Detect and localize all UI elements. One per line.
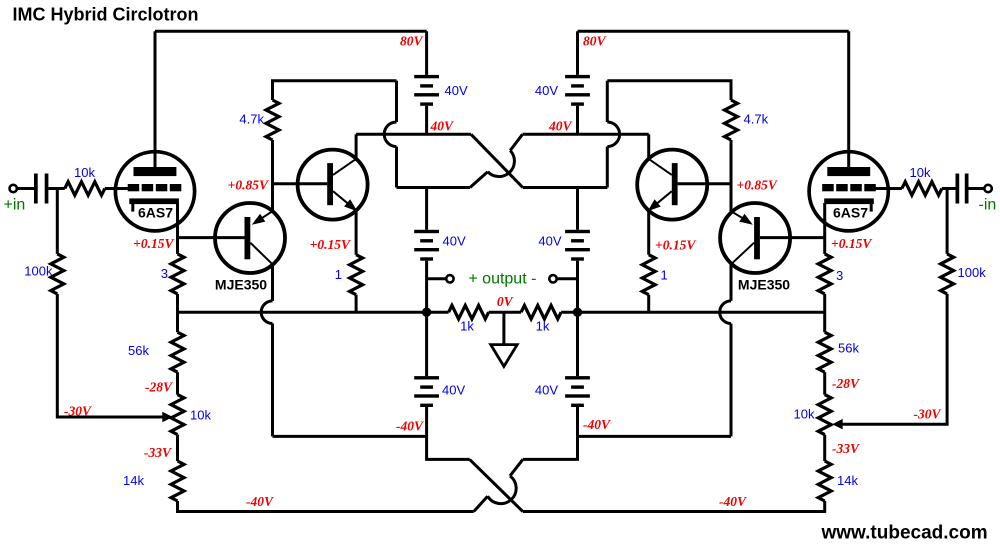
Q1 base bar bbox=[245, 217, 251, 259]
resistor R 100k (left) bbox=[51, 254, 64, 294]
resistor R 3 (left cathode) bbox=[171, 254, 184, 294]
svg-text:-40V: -40V bbox=[583, 417, 611, 432]
wire 10k to C2 bbox=[942, 187, 956, 190]
transistor Q1 MJE350 (left) circle bbox=[215, 203, 285, 273]
wire Q3 base to 4.7k node bbox=[678, 182, 731, 185]
wire pot to 14k (right) bbox=[823, 435, 826, 461]
svg-text:40V: 40V bbox=[445, 83, 468, 98]
node -in terminal bbox=[984, 185, 991, 192]
resistor R 1 (right) bbox=[642, 255, 655, 295]
resistor R 100k (right) bbox=[941, 254, 954, 294]
wire output tap right bbox=[557, 277, 578, 280]
wire B2 to junction bbox=[425, 261, 428, 313]
wire 10k to tube grid bbox=[105, 187, 129, 190]
resistor R 4.7k (right) bbox=[725, 100, 738, 140]
svg-text:40V: 40V bbox=[538, 234, 561, 249]
svg-text:+ output -: + output - bbox=[468, 270, 536, 287]
tube V2 cathode bbox=[824, 198, 874, 204]
wire lower edge left bbox=[397, 186, 471, 189]
svg-text:-28V: -28V bbox=[145, 380, 173, 395]
wire top rail right bbox=[578, 30, 849, 33]
wire node to R 100k bbox=[56, 189, 59, 254]
wire 14k to bottom rail (right) bbox=[523, 501, 825, 512]
tube V2 cathode legs bbox=[870, 203, 873, 212]
svg-text:4.7k: 4.7k bbox=[744, 112, 769, 127]
resistor R 1k (right) bbox=[521, 305, 561, 319]
wire 4.7k top to drop column right bbox=[607, 81, 731, 100]
wire mid rail left bbox=[178, 311, 427, 314]
wire 100k to -30V bend bbox=[57, 294, 163, 417]
wire left column into bottom crossing bbox=[427, 436, 470, 459]
svg-text:10k: 10k bbox=[190, 408, 211, 423]
svg-text:40V: 40V bbox=[430, 118, 455, 133]
wiper arrow into pot 10k left bbox=[162, 412, 173, 422]
wire pot to 14k bbox=[176, 435, 179, 461]
tube V1 grid (dashed) bbox=[128, 184, 140, 191]
svg-text:+0.15V: +0.15V bbox=[133, 236, 174, 251]
node junction dot left bbox=[422, 308, 431, 317]
transistor Q4 MJE350 (right) circle bbox=[720, 203, 790, 273]
wire 4.7k to +0.85V node bbox=[271, 140, 274, 211]
wire junction to battery B3 bbox=[425, 312, 428, 376]
wire 0V node to ground bbox=[502, 312, 505, 344]
resistor R 10k (right grid stopper) bbox=[902, 182, 942, 196]
svg-text:6AS7: 6AS7 bbox=[833, 205, 868, 221]
svg-text:80V: 80V bbox=[583, 33, 607, 48]
node +in terminal bbox=[10, 185, 17, 192]
wire bottom cross diagonal (left to right) bbox=[470, 459, 523, 511]
wire tube grid to 10k (right) bbox=[876, 187, 902, 190]
wire 4.7k to +0.85V node bbox=[730, 140, 733, 211]
wire 4.7k top to drop column bbox=[273, 81, 397, 100]
svg-text:40V: 40V bbox=[535, 383, 558, 398]
wire Q2 emitter down bbox=[355, 210, 358, 254]
wire node to Q2 base bbox=[273, 182, 328, 185]
svg-text:IMC Hybrid Circlotron: IMC Hybrid Circlotron bbox=[13, 4, 199, 24]
wiper arrow into pot 10k right bbox=[832, 419, 843, 430]
svg-text:-30V: -30V bbox=[64, 404, 92, 419]
wire cross diagonal (left top to right bottom) bbox=[471, 134, 523, 187]
svg-text:40V: 40V bbox=[535, 83, 558, 98]
wire Q3 emitter down bbox=[647, 210, 650, 254]
svg-text:+0.85V: +0.85V bbox=[737, 177, 778, 192]
wire top rail left bbox=[155, 30, 427, 33]
svg-text:100k: 100k bbox=[958, 265, 987, 280]
wire node to R 100k (right) bbox=[946, 189, 949, 254]
Q2 emitter line with arrow bbox=[333, 191, 353, 208]
resistor R 4.7k (left) bbox=[266, 100, 279, 140]
wire junction to 1k left bbox=[427, 311, 449, 314]
wire 1 to mid rail bbox=[355, 295, 358, 313]
resistor R 10k (left grid stopper) bbox=[65, 182, 105, 196]
wire cross diagonal (right top to left bottom) with hop bbox=[510, 134, 522, 150]
wire -40V rail right bbox=[578, 435, 732, 438]
battery B5 40V (right mid) bbox=[565, 230, 590, 233]
node output + terminal bbox=[446, 275, 453, 282]
resistor R 1k (left) bbox=[449, 305, 489, 319]
wire drop column left with hop bbox=[395, 81, 398, 122]
battery B2 40V (left mid) bbox=[414, 230, 439, 233]
Q4 base bar bbox=[754, 217, 760, 259]
svg-text:1: 1 bbox=[661, 268, 668, 283]
Q4 collector line bbox=[731, 243, 754, 265]
resistor R 56k (right) bbox=[818, 332, 831, 372]
svg-text:-40V: -40V bbox=[396, 418, 424, 433]
battery B1 40V (left top) bbox=[414, 75, 439, 78]
resistor R 14k (right) bbox=[818, 461, 831, 501]
wire 3 to node (right) bbox=[823, 294, 826, 332]
svg-text:+0.15V: +0.15V bbox=[310, 237, 351, 252]
wire anode to top rail bbox=[154, 31, 157, 168]
resistor R 1 (left) bbox=[350, 255, 363, 295]
svg-text:+0.15V: +0.15V bbox=[655, 238, 696, 253]
wire 1k to 0V node bbox=[489, 311, 521, 314]
svg-text:1k: 1k bbox=[460, 319, 474, 334]
wire drop column right with hop bbox=[606, 81, 609, 122]
tube V1 plate bbox=[134, 167, 177, 176]
svg-text:3: 3 bbox=[836, 268, 843, 283]
svg-text:-40V: -40V bbox=[246, 494, 274, 509]
wire upper horizontal right bbox=[523, 133, 649, 136]
wire B5 to junction bbox=[576, 261, 579, 313]
svg-text:-28V: -28V bbox=[832, 376, 860, 391]
svg-text:56k: 56k bbox=[128, 343, 149, 358]
ground symbol bbox=[491, 345, 518, 367]
wire right column into bottom crossing bbox=[523, 436, 578, 459]
wire 56k to pot (right) bbox=[823, 372, 826, 394]
svg-text:-in: -in bbox=[979, 197, 997, 214]
tube V1 cathode bbox=[129, 198, 179, 204]
capacitor C2 bbox=[956, 174, 960, 204]
svg-text:40V: 40V bbox=[442, 383, 465, 398]
tube V2 6AS7 envelope bbox=[809, 152, 888, 231]
svg-text:14k: 14k bbox=[123, 473, 144, 488]
Q2 collector line bbox=[333, 159, 356, 175]
svg-text:+0.85V: +0.85V bbox=[228, 177, 269, 192]
wire junction to battery B6 bbox=[576, 312, 579, 376]
wire Q4 collector down with hop over mid rail bbox=[730, 264, 733, 301]
svg-text:100k: 100k bbox=[24, 264, 53, 279]
svg-text:10k: 10k bbox=[794, 407, 815, 422]
wire 100k to -30V bend (right) bbox=[841, 294, 947, 424]
wire cathode down bbox=[176, 219, 179, 254]
wire 1 to mid rail bbox=[647, 295, 650, 313]
battery B4 40V (right top) bbox=[565, 75, 590, 78]
svg-text:-33V: -33V bbox=[832, 441, 860, 456]
tube V1 6AS7 envelope bbox=[115, 152, 194, 231]
svg-text:56k: 56k bbox=[838, 341, 859, 356]
svg-text:MJE350: MJE350 bbox=[738, 277, 790, 293]
svg-text:10k: 10k bbox=[910, 165, 931, 180]
wire rail to battery B4 bbox=[576, 31, 579, 75]
wire to battery B2 bbox=[425, 188, 428, 230]
wire 1k to right junction bbox=[561, 311, 577, 314]
transistor Q2 NPN (left driver) circle bbox=[298, 150, 368, 220]
wire 56k to pot bbox=[176, 372, 179, 394]
svg-text:+0.15V: +0.15V bbox=[831, 236, 872, 251]
potentiometer 10k (right) bbox=[818, 395, 831, 435]
svg-text:+in: +in bbox=[4, 197, 26, 214]
wire -40V rail left bbox=[273, 435, 427, 438]
wire bottom cross diagonal (right to left) with hop bbox=[510, 459, 523, 476]
wire Q3 collector up bbox=[647, 134, 650, 159]
battery B6 40V (right bottom) bbox=[565, 376, 590, 379]
wire output tap left bbox=[427, 277, 447, 280]
wire mid rail right bbox=[578, 311, 825, 314]
wire Q2 collector up bbox=[355, 134, 358, 159]
tube V2 plate bbox=[827, 167, 870, 176]
potentiometer 10k (left) bbox=[171, 395, 184, 435]
wire lower edge right bbox=[523, 186, 608, 189]
wire Q4 base bbox=[760, 236, 825, 239]
svg-text:www.tubecad.com: www.tubecad.com bbox=[821, 523, 988, 544]
svg-text:40V: 40V bbox=[548, 118, 573, 133]
Q3 collector line bbox=[649, 159, 672, 175]
wire upper horizontal left bbox=[356, 133, 471, 136]
svg-text:6AS7: 6AS7 bbox=[138, 205, 173, 221]
Q3 base bar bbox=[672, 163, 678, 205]
wire input to C1 bbox=[17, 187, 34, 190]
tube V1 cathode legs bbox=[131, 203, 134, 212]
Q1 collector line bbox=[250, 243, 272, 265]
svg-text:4.7k: 4.7k bbox=[239, 112, 264, 127]
wire B4 to 40V node bbox=[576, 106, 579, 135]
svg-text:-33V: -33V bbox=[144, 445, 172, 460]
wire C1 to R 10k bbox=[48, 187, 64, 190]
wire 3 to node bbox=[176, 294, 179, 332]
Q2 base bar bbox=[327, 163, 333, 205]
wire Q1 base bbox=[178, 236, 245, 239]
svg-text:MJE350: MJE350 bbox=[215, 277, 267, 293]
resistor R 3 (right cathode) bbox=[818, 254, 831, 294]
svg-text:0V: 0V bbox=[497, 294, 514, 309]
Q1 emitter line with arrow bbox=[255, 211, 273, 223]
svg-text:1: 1 bbox=[335, 267, 342, 282]
resistor R 56k (left) bbox=[171, 332, 184, 372]
svg-text:10k: 10k bbox=[74, 165, 95, 180]
wire rail to battery B1 bbox=[425, 31, 428, 75]
wire B1 to 40V node bbox=[425, 106, 428, 135]
svg-text:14k: 14k bbox=[837, 473, 858, 488]
wire B6 to -40V rail bbox=[576, 407, 579, 436]
resistor R 14k (left) bbox=[171, 461, 184, 501]
battery B3 40V (left bottom) bbox=[414, 376, 439, 379]
svg-text:-30V: -30V bbox=[914, 407, 942, 422]
tube V2 grid (dashed) bbox=[822, 184, 834, 191]
wire Q1 collector down with hop over mid rail bbox=[271, 264, 274, 301]
wire cathode down (right) bbox=[823, 219, 826, 254]
svg-text:-40V: -40V bbox=[719, 494, 747, 509]
svg-text:40V: 40V bbox=[443, 234, 466, 249]
svg-text:3: 3 bbox=[161, 266, 168, 281]
wire 14k to bottom rail bbox=[178, 501, 474, 512]
wire C2 to input (right) bbox=[969, 187, 985, 190]
node output - terminal bbox=[549, 275, 556, 282]
capacitor C1 bbox=[34, 174, 38, 204]
Q3 emitter line with arrow bbox=[652, 191, 672, 208]
svg-text:80V: 80V bbox=[400, 33, 424, 48]
Q4 emitter line with arrow bbox=[731, 211, 751, 223]
wire B3 to -40V rail bbox=[425, 407, 428, 436]
wire anode to top rail (right) bbox=[847, 31, 850, 168]
svg-text:1k: 1k bbox=[536, 319, 550, 334]
wire to battery B5 bbox=[576, 188, 579, 230]
node junction dot right bbox=[573, 308, 582, 317]
transistor Q3 NPN (right driver) circle bbox=[637, 150, 707, 220]
